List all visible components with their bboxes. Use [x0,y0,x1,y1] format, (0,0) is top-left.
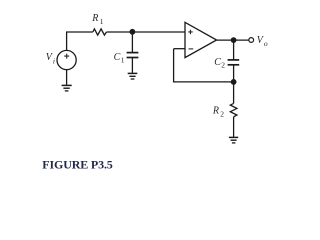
svg-text:R: R [91,13,98,24]
ground (C1) [128,72,138,74]
wire: node down to C1 [131,32,133,52]
svg-text:FIGURE P3.5: FIGURE P3.5 [42,157,113,171]
wire: op-amp output [217,39,249,41]
svg-text:2: 2 [221,61,225,70]
svg-text:2: 2 [220,109,224,118]
wire: R1 to op-amp + input [107,31,186,33]
svg-text:C: C [214,57,221,68]
node: feedback junction [231,79,237,85]
wire: C1 to ground [131,58,133,73]
wire: R2 to ground [233,117,235,137]
terminal Vo [249,38,254,43]
op-amp U1 [185,22,217,57]
wire: source top stem and top rail to R1 [67,32,93,51]
svg-text:R: R [212,105,219,116]
resistor R1 [93,29,107,35]
wire: feedback down and across [174,49,234,82]
node: junction at R1/C1 [130,29,136,35]
wire: output node down to C2 [233,40,235,59]
node: output junction [231,37,237,43]
ground (R2) [229,136,238,138]
capacitor C2 [228,59,240,61]
wire: inverting input [174,48,185,50]
resistor R2 [230,103,237,116]
wire: C2 down through junction to R2 [233,65,235,103]
svg-text:o: o [264,39,268,48]
svg-text:1: 1 [100,17,104,26]
wire: source to ground [66,70,68,85]
svg-text:i: i [53,56,55,65]
svg-text:1: 1 [121,56,125,65]
source Vi [57,50,76,69]
capacitor C1 [127,52,139,54]
svg-text:C: C [114,52,121,63]
ground (source) [62,84,72,86]
